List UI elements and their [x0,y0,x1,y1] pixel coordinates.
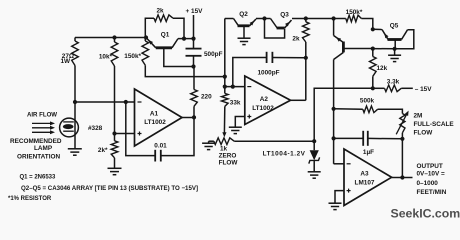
label Q1 [161,32,170,39]
label A2 [260,96,269,103]
svg-text:LT1002: LT1002 [252,105,274,112]
label 27&#937; [62,53,74,60]
wire bridge top rail [75,37,146,39]
wire pot to ref node [234,140,314,142]
svg-text:1W: 1W [61,58,72,65]
node junction 15V-collector [191,37,195,41]
resistor 3.3k [373,85,413,92]
svg-text:150k*: 150k* [124,53,141,60]
node junction 27-lamp-A1 [73,100,77,104]
label 3.3k [387,79,400,86]
label 2k mid [292,36,300,43]
svg-text:SeekIC.com: SeekIC.com [391,207,460,221]
svg-text:0–1000: 0–1000 [417,180,439,187]
capacitor 500pF [186,39,202,67]
svg-text:FEET/MIN: FEET/MIN [417,189,447,196]
node junction 500k tap [332,107,336,111]
label 500k [360,98,375,105]
svg-text:LT1004-1.2V: LT1004-1.2V [263,151,306,158]
transistor Q2 [234,19,265,39]
wire A2 output [291,99,306,101]
svg-text:A1: A1 [150,111,159,118]
resistor 500k [334,106,403,114]
svg-text:2k: 2k [292,36,300,43]
resistor 2k* [111,134,118,169]
label FLOW zero [219,160,239,167]
resistor 27&#937; 1W [72,38,79,103]
wire A1 plus input [115,133,135,135]
svg-text:LAMP: LAMP [34,145,53,152]
resistor 10k* [111,38,118,134]
svg-text:2M: 2M [414,113,423,120]
ground A3 plus [329,203,342,209]
node junction rail-2k [304,16,308,20]
svg-text:A2: A2 [260,96,269,103]
node junction base-500pF-220 [191,64,195,68]
label LT1002 A1 [144,119,166,126]
node junction rail-10k [112,35,116,39]
lamp #328 [60,102,79,149]
resistor 150k* horizontal [346,15,373,29]
label 33k [230,100,241,107]
label 2k top-left [156,8,164,15]
svg-text:500k: 500k [360,98,375,105]
air flow arrow 2 [32,126,55,130]
capacitor 1&#181;F [334,131,403,146]
label AIR FLOW [27,112,57,119]
wire Q4 collector column [333,60,335,164]
label 0V-10V [417,170,446,177]
node junction 10k-2k*-A1plus [112,131,116,135]
node junction Q5 emitter [393,47,397,51]
potentiometer 1k zero flow [209,138,235,145]
svg-text:*1% RESISTOR: *1% RESISTOR [8,196,52,202]
svg-text:Q2–Q5 = CA3046 ARRAY [TIE PIN: Q2–Q5 = CA3046 ARRAY [TIE PIN 13 (SUBSTR… [21,185,198,192]
power -15V [415,86,432,93]
air flow arrow 3 [32,130,55,134]
label 12k [377,65,388,72]
node junction 2M-1uF-out [400,137,404,141]
svg-text:12k: 12k [377,65,388,72]
svg-text:AIR FLOW: AIR FLOW [27,112,57,119]
label 150k* vertical [124,53,141,60]
op-amp A2 LT1002 [245,76,291,125]
resistor 12k [370,49,377,89]
wire A3 minus input [334,163,344,165]
resistor 33k [222,87,229,138]
label A1 [150,111,159,118]
label Q2 [239,11,248,18]
svg-text:RECOMMENDED: RECOMMENDED [10,138,62,145]
wire Q3 loop [265,19,285,39]
transistor Q5 [373,29,414,49]
potentiometer 2M full-scale [396,111,408,139]
label LT1002 A2 [252,105,274,112]
wire Q5 ground rail [373,48,395,50]
label ORIENTATION [17,154,60,161]
wire A2 plus ground [235,117,245,128]
svg-text:OUTPUT: OUTPUT [417,163,443,170]
svg-text:1µF: 1µF [363,149,374,156]
wire A3 output [392,139,413,178]
wire A1 minus input [75,101,135,103]
wire A3 plus ground [335,191,344,204]
svg-text:LT1002: LT1002 [144,119,166,126]
label 0-1000 [417,180,439,187]
svg-text:2k: 2k [156,8,164,15]
label FLOW full-scale [414,130,434,137]
ground LT1004 [308,172,321,178]
svg-text:33k: 33k [230,100,241,107]
wire A1 output [182,117,194,119]
transistor Q4 [334,19,373,60]
label 1k [220,146,228,153]
node junction 150k-col [223,75,227,79]
label RECOMMENDED [10,138,62,145]
wire A2 input column [224,19,226,87]
svg-text:3.3k: 3.3k [387,79,400,86]
svg-text:0.01: 0.01 [154,143,167,150]
label 2k* [98,147,108,154]
label #328 [88,125,103,132]
ground A2 plus [229,127,242,133]
svg-text:1000pF: 1000pF [257,70,279,77]
svg-text:150k*: 150k* [346,9,363,16]
node junction output [400,175,404,179]
node junction 12k-3.3k [371,86,375,90]
svg-text:Q1: Q1 [161,32,170,39]
ground Q2 [238,38,251,44]
svg-text:+ 15V: + 15V [186,8,204,15]
wire Q1 base [164,48,194,67]
resistor 2k top-left [145,15,184,39]
svg-text:Q1 = 2N6533: Q1 = 2N6533 [20,175,57,181]
svg-text:FLOW: FLOW [219,160,239,167]
label 0.01 [154,143,167,150]
svg-text:Q2: Q2 [239,11,248,18]
ground 1k pot [202,143,215,149]
label 220 [201,94,212,101]
note Q1 type [20,175,57,181]
label FEET/MIN [417,189,447,196]
svg-text:A3: A3 [360,171,369,178]
transistor Q1 [146,38,194,48]
svg-text:Q3: Q3 [280,12,289,19]
svg-text:Q5: Q5 [390,23,399,30]
wire A2 minus input [225,86,245,88]
node junction 1000pF tap [231,85,235,89]
node junction A1out [192,115,196,119]
node junction 1uF tap [332,136,336,140]
node junction Q5 base wire [371,27,375,31]
air flow arrow 1 [32,121,55,125]
svg-text:10k*: 10k* [99,54,113,61]
svg-text:ORIENTATION: ORIENTATION [17,154,60,161]
label 10k* [99,54,113,61]
transistor Q3 [265,19,292,29]
op-amp A1 LT1002 [135,89,183,146]
label 1000pF [257,70,279,77]
ground 2k* [108,168,122,174]
node junction Q2-Q3 [262,16,266,20]
label ZERO [219,153,237,160]
node junction ref-pot [312,139,316,143]
svg-text:0V–10V =: 0V–10V = [417,170,446,177]
node junction rail-150k-Q1 [144,35,148,39]
label 2M [414,113,423,120]
label 500pF [204,51,223,58]
svg-text:LM107: LM107 [355,180,375,187]
label LT1004-1.2V [263,151,306,158]
svg-text:#328: #328 [88,125,103,132]
node junction feedback tap [124,100,128,104]
label LAMP [34,145,53,152]
label LM107 [355,180,375,187]
wire mid rail [225,18,346,20]
svg-text:1k: 1k [220,146,228,153]
watermark SeekIC.com [391,207,460,221]
wire ref node H1 [314,88,373,141]
node junction 12k-gnd rail [371,47,375,51]
label 150k* horizontal [346,9,363,16]
label OUTPUT [417,163,443,170]
label Q3 [280,12,289,19]
svg-text:FLOW: FLOW [414,130,434,137]
svg-text:FULL-SCALE: FULL-SCALE [414,121,455,128]
resistor 150k* vertical [142,38,225,77]
capacitor 1000pF [233,52,306,87]
resistor 220 [191,67,198,118]
ground Q5 [388,49,401,62]
power +15V [186,8,204,39]
label Q5 [390,23,399,30]
svg-text:– 15V: – 15V [415,86,432,93]
svg-text:500pF: 500pF [204,51,223,58]
label FULL-SCALE [414,121,455,128]
svg-text:220: 220 [201,94,212,101]
note 1% resistor [8,196,52,202]
diode LT1004-1.2V [309,141,320,172]
ground lamp [68,149,82,155]
capacitor 0.01 feedback [126,102,194,162]
resistor 2k mid [303,19,310,101]
note Q2-Q5 type [21,185,198,192]
node junction col-A2minus [223,85,227,89]
op-amp A3 LM107 [344,149,392,206]
label 1uF [363,149,374,156]
node junction rail-V2 [332,16,336,20]
label 1W [61,58,72,65]
svg-text:2k*: 2k* [98,147,108,154]
node junction 2k-collector [182,37,186,41]
node junction 1000pF-A2out [304,56,308,60]
svg-text:ZERO: ZERO [219,153,237,160]
label A3 [360,171,369,178]
